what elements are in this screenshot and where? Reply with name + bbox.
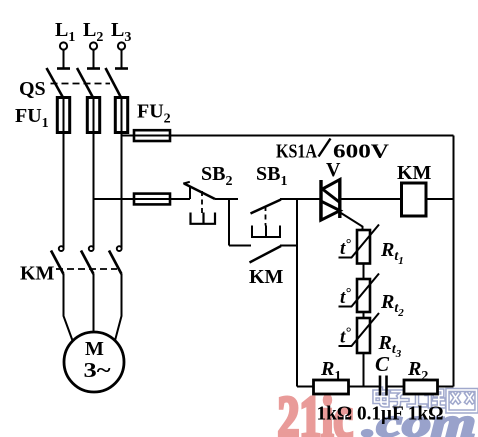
wire right rail — [453, 136, 455, 387]
wire bottom rail right — [388, 386, 454, 388]
wire Rt1 to Rt2 — [363, 264, 365, 280]
svg-text:KS1A: KS1A — [276, 141, 317, 163]
switch QS pole 2 fixed contact — [87, 67, 100, 70]
wire bottom rail left — [297, 386, 379, 388]
contact KM main pole 1 — [51, 246, 64, 274]
resistor R1 — [314, 380, 349, 394]
switch QS linkage dashed — [51, 83, 111, 85]
wire SB2 to SB1 — [215, 198, 238, 200]
thermistor Rt2 — [339, 274, 380, 313]
pushbutton SB1 actuator dashed — [265, 206, 267, 226]
terminal L1 — [60, 42, 67, 49]
wire phase 1 vertical — [63, 133, 65, 248]
wire Rt3 to bottom rail — [363, 353, 365, 387]
pushbutton SB2 blade — [184, 184, 215, 200]
wire L3 lead — [121, 50, 123, 69]
svg-text:KM: KM — [20, 263, 55, 285]
fuse control circuit — [134, 194, 170, 205]
pushbutton SB2 button cap — [191, 213, 216, 224]
wire phase 3 vertical — [121, 133, 123, 248]
wire top control feed — [122, 135, 454, 137]
capacitor C — [380, 376, 387, 396]
pushbutton SB1 blade — [251, 200, 282, 214]
wire phase 2 vertical — [93, 133, 95, 248]
svg-text:KM: KM — [397, 162, 432, 184]
wire junction drop to KM contact branch — [228, 199, 230, 246]
contact KM auxiliary branch wire right — [280, 245, 297, 247]
pushbutton SB2 actuator dashed — [201, 191, 203, 214]
motor M — [64, 332, 124, 392]
coil KM — [402, 183, 427, 216]
watermark 21ic.com and chinese characters — [278, 385, 477, 437]
pushbutton SB2 fixed contact tick — [189, 186, 191, 200]
fuse FU1 pole 3 — [115, 98, 127, 133]
wire triac to coil — [340, 198, 402, 200]
contact KM main pole 3 — [109, 246, 122, 274]
svg-text:QS: QS — [19, 78, 46, 100]
svg-text:3~: 3~ — [84, 358, 112, 382]
terminal L2 — [90, 42, 97, 49]
contact KM main pole 2 — [81, 246, 94, 274]
wire L1 lead — [63, 50, 65, 69]
contact KM auxiliary blade — [250, 246, 282, 263]
wire motor phase 1 — [64, 274, 73, 341]
resistor R2 — [404, 380, 438, 394]
svg-text:C: C — [375, 352, 390, 376]
terminal L3 — [118, 42, 125, 49]
fuse FU1 pole 1 — [57, 98, 69, 133]
contact KM main linkage dashed — [56, 268, 117, 270]
switch QS pole 1 blade — [47, 68, 64, 98]
contact KM auxiliary branch wire left — [229, 245, 251, 247]
switch QS pole 3 blade — [106, 68, 122, 98]
svg-text:600V: 600V — [333, 141, 390, 163]
pushbutton SB1 button cap — [252, 226, 280, 238]
svg-text:M: M — [85, 338, 104, 360]
wire coil to right rail — [426, 198, 454, 200]
wire left control rail — [296, 199, 298, 387]
wire SB1 to triac — [280, 198, 321, 200]
switch QS pole 1 fixed contact — [57, 67, 70, 70]
fuse FU2 — [134, 130, 170, 141]
svg-text:V: V — [326, 159, 341, 181]
svg-text:1kΩ 0.1μF 1kΩ: 1kΩ 0.1μF 1kΩ — [317, 403, 444, 425]
wire control feed from phase 2 — [94, 198, 191, 200]
wire Rt2 to Rt3 — [363, 312, 365, 318]
wire triac gate — [341, 213, 363, 231]
thermistor Rt3 — [339, 313, 380, 353]
switch QS pole 3 fixed contact — [115, 67, 128, 70]
svg-text:KM: KM — [249, 266, 284, 288]
fuse FU1 pole 2 — [87, 98, 99, 133]
thermistor Rt1 — [339, 225, 380, 264]
wire motor phase 3 — [115, 274, 122, 341]
wire L2 lead — [93, 50, 95, 69]
wire motor phase 2 — [93, 274, 95, 332]
switch QS pole 2 blade — [77, 68, 93, 98]
triac V — [321, 179, 340, 221]
